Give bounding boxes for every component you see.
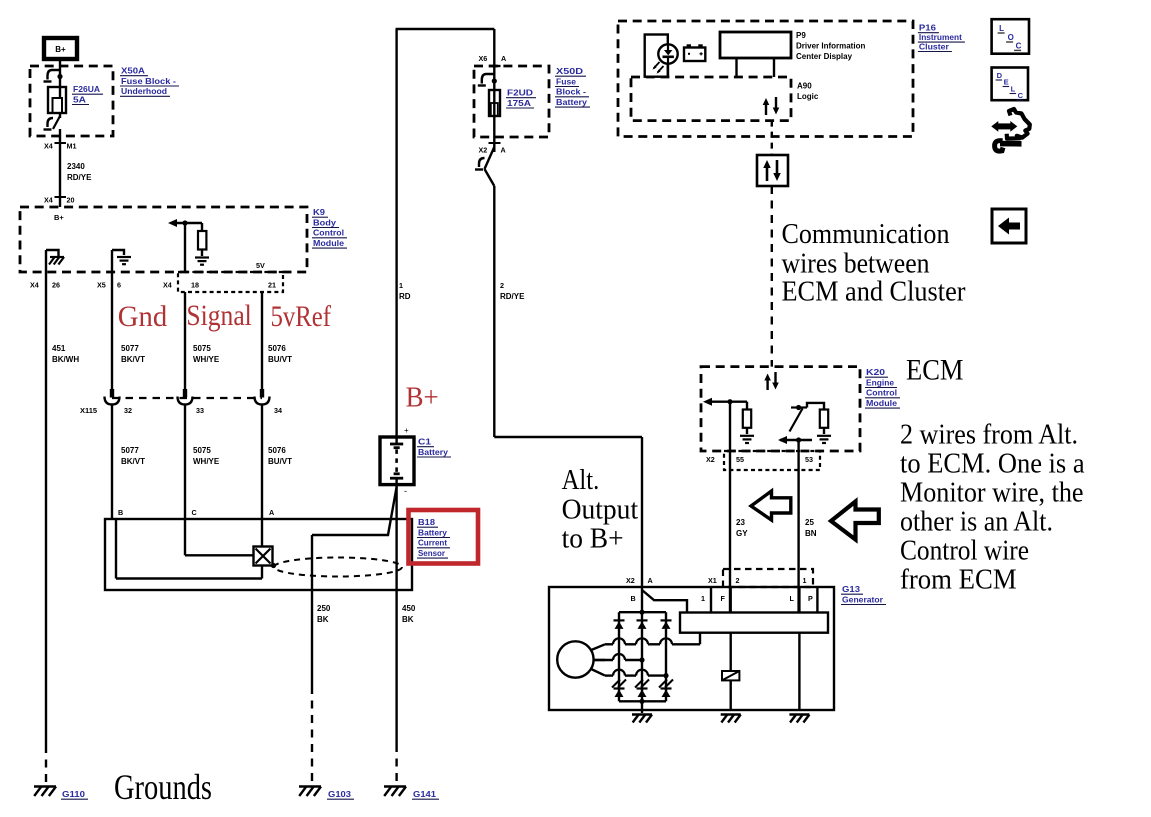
svg-text:Signal: Signal <box>186 299 251 332</box>
svg-text:C: C <box>1016 41 1022 50</box>
svg-text:5075: 5075 <box>193 344 211 353</box>
svg-text:5V: 5V <box>256 261 265 270</box>
svg-text:Underhood: Underhood <box>121 86 167 96</box>
svg-text:X4: X4 <box>163 281 172 290</box>
svg-text:to B+: to B+ <box>562 523 624 555</box>
svg-text:D: D <box>997 71 1003 80</box>
svg-text:5077: 5077 <box>121 344 139 353</box>
svg-text:5075: 5075 <box>193 446 211 455</box>
svg-text:Engine: Engine <box>866 377 894 387</box>
svg-text:A: A <box>648 576 653 585</box>
svg-text:Block -: Block - <box>556 87 586 97</box>
svg-text:WH/YE: WH/YE <box>193 457 220 466</box>
svg-text:E: E <box>1004 78 1009 87</box>
svg-text:1: 1 <box>399 281 403 290</box>
svg-text:450: 450 <box>402 604 416 613</box>
svg-text:G141: G141 <box>413 789 436 799</box>
svg-text:RD: RD <box>399 292 411 301</box>
svg-text:Body: Body <box>313 217 336 227</box>
svg-text:2: 2 <box>500 281 504 290</box>
svg-text:Alt.: Alt. <box>562 464 600 496</box>
svg-text:Battery: Battery <box>418 528 448 537</box>
svg-text:Monitor wire, the: Monitor wire, the <box>900 476 1084 508</box>
svg-text:53: 53 <box>805 455 813 464</box>
svg-text:BN: BN <box>805 529 817 538</box>
svg-text:23: 23 <box>736 518 745 527</box>
svg-text:X4: X4 <box>30 281 39 290</box>
svg-text:Battery: Battery <box>556 97 587 107</box>
svg-text:Module: Module <box>866 398 897 408</box>
svg-text:X4: X4 <box>44 196 53 205</box>
svg-text:B: B <box>631 594 636 603</box>
svg-text:2 wires from Alt.: 2 wires from Alt. <box>900 418 1078 450</box>
svg-text:Cluster: Cluster <box>919 41 950 51</box>
svg-text:to ECM. One is a: to ECM. One is a <box>900 447 1085 479</box>
svg-text:P: P <box>808 594 813 603</box>
svg-text:Driver Information: Driver Information <box>796 42 865 51</box>
svg-text:F26UA: F26UA <box>73 84 100 94</box>
svg-text:2340: 2340 <box>67 162 85 171</box>
svg-text:P9: P9 <box>796 31 806 40</box>
svg-text:32: 32 <box>124 406 132 415</box>
svg-text:RD/YE: RD/YE <box>67 173 92 182</box>
svg-text:451: 451 <box>52 344 66 353</box>
svg-text:BU/VT: BU/VT <box>268 355 292 364</box>
svg-text:5076: 5076 <box>268 446 286 455</box>
svg-text:25: 25 <box>805 518 814 527</box>
svg-text:20: 20 <box>67 196 75 205</box>
svg-text:A: A <box>501 146 506 155</box>
svg-text:Generator: Generator <box>842 594 884 604</box>
svg-text:18: 18 <box>191 281 199 290</box>
svg-text:B18: B18 <box>418 518 436 527</box>
svg-text:C: C <box>192 508 197 517</box>
svg-text:Gnd: Gnd <box>118 300 167 333</box>
svg-text:BK: BK <box>317 615 329 624</box>
svg-text:Grounds: Grounds <box>114 767 212 807</box>
svg-text:Logic: Logic <box>797 92 819 101</box>
svg-text:G103: G103 <box>328 789 351 799</box>
svg-text:175A: 175A <box>507 98 531 108</box>
svg-text:B+: B+ <box>55 45 66 54</box>
svg-text:X6: X6 <box>479 54 488 63</box>
svg-text:L: L <box>790 594 795 603</box>
svg-text:26: 26 <box>52 281 60 290</box>
svg-text:33: 33 <box>196 406 204 415</box>
svg-text:B: B <box>118 508 123 517</box>
svg-text:21: 21 <box>268 281 276 290</box>
svg-text:1: 1 <box>803 576 807 585</box>
svg-text:BU/VT: BU/VT <box>268 457 292 466</box>
svg-text:+: + <box>404 426 409 435</box>
svg-text:-: - <box>404 486 407 496</box>
svg-text:BK/VT: BK/VT <box>121 457 145 466</box>
svg-text:Communication: Communication <box>782 218 950 250</box>
svg-text:WH/YE: WH/YE <box>193 355 220 364</box>
svg-text:from ECM: from ECM <box>900 563 1017 595</box>
svg-text:G110: G110 <box>62 789 85 799</box>
svg-text:Current: Current <box>418 539 447 548</box>
svg-text:X50A: X50A <box>121 66 145 76</box>
svg-text:F: F <box>721 594 726 603</box>
svg-text:Control wire: Control wire <box>900 534 1029 566</box>
svg-text:ECM: ECM <box>906 354 964 387</box>
svg-text:2: 2 <box>736 576 740 585</box>
svg-text:A: A <box>269 508 274 517</box>
svg-text:5076: 5076 <box>268 344 286 353</box>
svg-text:other is an Alt.: other is an Alt. <box>900 505 1053 537</box>
svg-text:K9: K9 <box>313 207 325 217</box>
svg-text:L: L <box>999 24 1004 33</box>
svg-text:Control: Control <box>866 388 897 398</box>
svg-text:5077: 5077 <box>121 446 139 455</box>
svg-text:X2: X2 <box>706 455 715 464</box>
svg-text:B+: B+ <box>406 382 439 414</box>
svg-text:F2UD: F2UD <box>507 88 533 98</box>
svg-text:K20: K20 <box>866 367 885 377</box>
svg-text:RD/YE: RD/YE <box>500 292 525 301</box>
svg-text:Fuse Block -: Fuse Block - <box>121 76 176 86</box>
svg-text:X2: X2 <box>626 576 635 585</box>
svg-text:55: 55 <box>736 455 744 464</box>
svg-text:BK/VT: BK/VT <box>121 355 145 364</box>
svg-text:A90: A90 <box>797 82 812 91</box>
svg-text:C1: C1 <box>418 437 431 447</box>
svg-text:B+: B+ <box>54 213 64 222</box>
svg-text:34: 34 <box>274 406 282 415</box>
svg-text:Center Display: Center Display <box>796 52 853 61</box>
svg-text:X4: X4 <box>44 142 53 151</box>
svg-text:Sensor: Sensor <box>418 549 445 558</box>
svg-text:O: O <box>1008 33 1014 42</box>
svg-text:5vRef: 5vRef <box>271 300 332 333</box>
svg-text:X115: X115 <box>80 406 97 415</box>
svg-text:Output: Output <box>562 494 639 526</box>
svg-text:X2: X2 <box>479 146 488 155</box>
svg-text:Control: Control <box>313 228 344 238</box>
svg-text:BK/WH: BK/WH <box>52 355 79 364</box>
svg-text:5A: 5A <box>73 94 86 104</box>
svg-text:6: 6 <box>117 281 121 290</box>
svg-text:BK: BK <box>402 615 414 624</box>
svg-text:A: A <box>501 54 506 63</box>
svg-text:GY: GY <box>736 529 748 538</box>
svg-text:X1: X1 <box>708 576 717 585</box>
svg-text:Battery: Battery <box>418 447 448 457</box>
svg-text:M1: M1 <box>67 142 77 151</box>
svg-text:Module: Module <box>313 238 344 248</box>
svg-text:C: C <box>1018 91 1024 100</box>
svg-text:L: L <box>1011 85 1016 94</box>
svg-text:X5: X5 <box>97 281 106 290</box>
svg-text:G13: G13 <box>842 584 860 594</box>
svg-text:X50D: X50D <box>556 66 583 76</box>
svg-text:Fuse: Fuse <box>556 76 576 86</box>
svg-text:1: 1 <box>701 594 705 603</box>
svg-text:ECM and Cluster: ECM and Cluster <box>782 276 966 308</box>
svg-text:250: 250 <box>317 604 331 613</box>
